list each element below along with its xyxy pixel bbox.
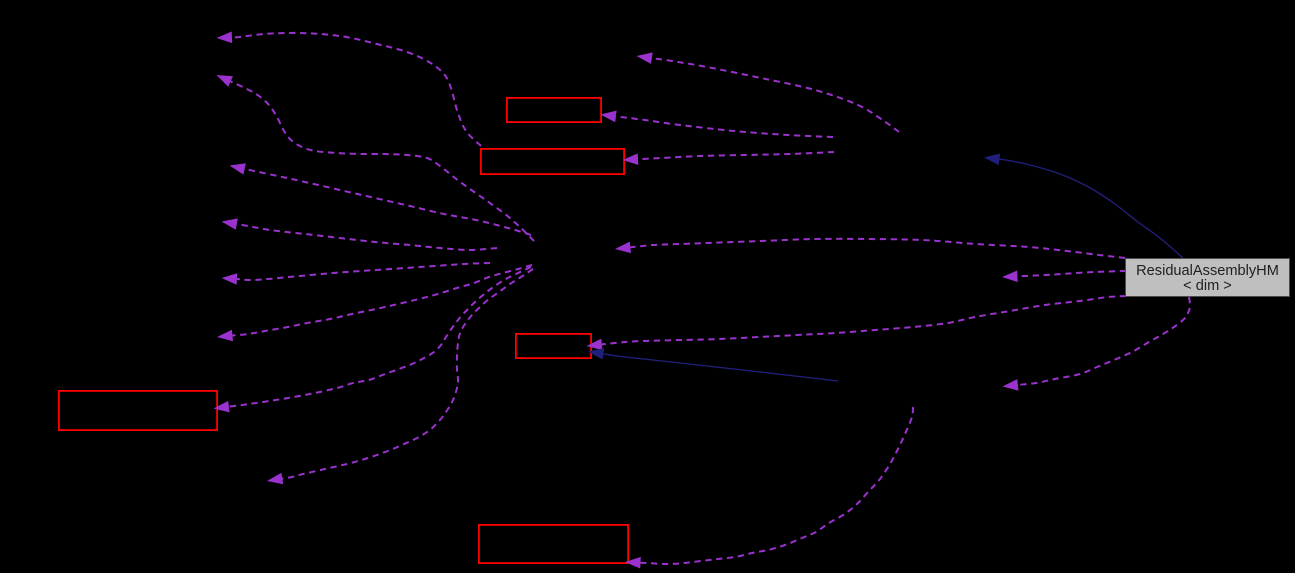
edge grey to node10 xyxy=(1003,297,1191,391)
red node box D xyxy=(516,334,591,358)
edge grey to X xyxy=(615,239,1125,258)
edge grey to box D xyxy=(587,296,1127,350)
edge nodeQ to node (top-center arrow) xyxy=(637,52,900,132)
red node box E xyxy=(479,525,628,563)
edge X to node4 xyxy=(222,218,498,250)
edge node10 to box E xyxy=(625,407,913,569)
edge X to node3 xyxy=(230,163,532,235)
edge X to node5 xyxy=(222,263,491,285)
svg-text:ResidualAssemblyHM: ResidualAssemblyHM xyxy=(1136,263,1279,279)
edge B to node1 (top-left arrow) xyxy=(217,32,482,147)
red node box C xyxy=(59,391,217,430)
red node box A xyxy=(507,98,601,122)
inheritance edge grey to nodeQ xyxy=(984,154,1183,259)
red node box B xyxy=(481,149,624,174)
edge X to node8 (bottom-left arrow) xyxy=(267,269,533,484)
edge nodeP to box B xyxy=(623,152,835,165)
edge nodeP to box A xyxy=(601,111,834,137)
svg-text:< dim >: < dim > xyxy=(1183,278,1232,294)
grey node ResidualAssemblyHM< dim > xyxy=(1126,259,1290,297)
edge X to node2 xyxy=(217,75,535,241)
edge X to node6 xyxy=(217,265,532,341)
inheritance edge node10 to box D xyxy=(588,348,838,381)
edge X to box C xyxy=(214,267,532,412)
edge grey to node9 xyxy=(1002,271,1126,283)
